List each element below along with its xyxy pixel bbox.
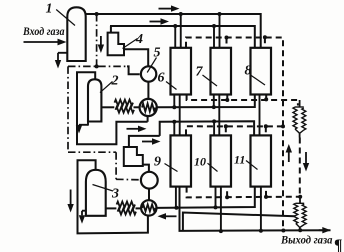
cold box boundary dash-dot horizontal y66.4 [68,65,127,67]
wire lower exchanger to L1 [156,187,255,208]
node line2-ads7 [212,24,216,28]
regen dashed stub ads11 top [265,126,267,135]
wire ads7 top stub a [213,26,215,48]
wire keystone line y122 [160,121,254,136]
wire ads6 top stub a [174,26,176,48]
wire ads9 top stub a [173,122,175,136]
wire to lower heater [299,197,301,204]
wire line1 y14 [85,14,261,48]
wire L2 return line [183,213,295,232]
wire ejector4 to heatex5 [124,49,148,66]
vessel 3 drain [82,210,87,212]
adsorber 6 [171,48,192,95]
node dashed100-ads7 [225,98,229,102]
regen dashed stub ads8 top [264,37,266,48]
ejector 4 [110,26,112,33]
regen dashed line y197 below bottom adsorbers [187,187,301,198]
node L1-ads10 [214,205,218,209]
svg-text:2: 2 [111,74,119,89]
vessel 2 (cold separator) [88,79,101,121]
wire vessel3 top to outlet segment A [78,160,148,233]
wire lower cooler to exchanger [136,207,142,209]
adsorber 10 [211,135,232,186]
wire ads11 to outlet line [260,187,262,231]
node y122-ads9 [172,120,176,124]
wire ads7 top stub b [219,14,221,48]
flow arrow mid 2 [142,141,152,143]
wire ads6 bottom stub to y107 [173,95,175,108]
wire line2 y26 [110,26,255,48]
node line1-ads7 [218,12,222,16]
wire cooler to exchanger [134,106,140,108]
node dashed197 end [298,195,302,199]
svg-text:Вход газа: Вход газа [22,26,65,38]
wire exchanger bottom stub [147,117,149,122]
node dashdot-line1 [95,12,99,16]
inlet arrow [24,41,58,43]
cold box boundary dash-dot vertical x68 [67,66,69,152]
wire vessel2 to cooler [101,106,114,108]
flow arrow on line1 [159,8,172,10]
node outlet-heater [298,228,302,232]
node line1-ads6 [179,12,183,16]
wire ads10 top stub a [213,121,215,135]
cooler zigzag upper row [115,100,134,106]
label 10 leader [208,163,218,171]
regen dashed stub ads7 bottom [226,95,228,101]
node y107-ads6 [172,105,176,109]
svg-text:6: 6 [158,71,165,86]
heat exchanger 9 circle [141,172,158,189]
label 3 leader [93,185,114,192]
label 8 leader [251,75,266,85]
wire exchanger to adsorber line y107 [157,95,255,108]
node line2-ads6 [173,24,177,28]
svg-text:11: 11 [234,153,245,167]
node dashed37-ads7 [225,36,229,40]
regen dashed top line y37.5 [186,38,283,232]
node dashed vertical junction [281,124,285,128]
wire ads10 to outlet line [220,187,222,232]
svg-text:7: 7 [196,65,204,80]
node L1-ads9 [174,206,178,210]
wire ads6-ads9 through stub [179,95,181,136]
wire upper heater bottom stub [299,133,301,137]
regen dashed line y100 below top adsorbers [187,95,298,106]
node dashed197-ads11 [264,195,268,199]
node outlet-ads10 [219,229,223,233]
lower cooler zigzag lower row [118,209,136,215]
vessel 2 drain [79,124,88,126]
node outlet-ads11 [259,229,263,233]
cold box boundary dash-dot horizontal y152.2 [68,151,116,153]
node dashed100-ads8 [264,97,268,101]
adsorber 11 [251,135,272,186]
label 6 leader [166,82,177,90]
regen heater lower zigzag pair [296,202,304,204]
regen dashed vertical x300 [299,138,301,197]
node outlet-dashed283 [281,229,285,233]
regen heater upper zigzag pair [295,106,304,108]
return flow arrow left [166,215,177,217]
svg-text:5: 5 [154,46,161,61]
node dashdot corner [95,64,99,68]
heat exchanger 5 [141,66,156,81]
wire ads9 bottom stub to L1 [175,187,177,208]
ejector (lower) [124,147,143,166]
wire ads8-ads11 through stub [259,95,261,136]
label 7 leader [203,75,218,86]
flow arrow mid 1 [127,128,139,130]
node dashed37-ads8 [263,35,267,39]
label 9 leader [165,164,178,172]
flow arrow on line2 [150,21,161,23]
node y122-ads10 [212,119,216,123]
svg-text:¶: ¶ [335,237,343,252]
vessel 1 drain [58,52,67,54]
wire ejector feed line y136 [129,136,160,147]
svg-text:10: 10 [194,155,206,169]
adsorber 9 [171,135,192,186]
wire ads7-ads10 through stub [218,95,220,136]
wire outlet line segment B [180,187,331,231]
exchanger (circle with zigzag) [140,99,157,116]
vessel 1 (inlet separator) [67,7,85,61]
regen dashed stub ads11 bottom [265,187,267,197]
wire circle9 to lower exchanger [148,189,150,201]
cold box boundary dash-dot vertical x116.1 [115,152,117,179]
regen dashed stub ads7 top [226,38,228,48]
adsorber 8 [251,48,272,95]
lower exchanger (circle with zigzag) [141,200,156,215]
wire ads7 bottom stub to y107 [213,95,215,108]
wire vessel2 bottom left joint [87,121,89,126]
regen dashed line y126.3 above bottom adsorbers [186,126,283,135]
node y107-ads7 [212,105,216,109]
flow arrow down into vessel3 loop [70,190,72,205]
regen dashed stub ads10 top [225,126,227,135]
wire ejector to circle 9 [143,165,149,172]
adsorber 7 [211,48,232,95]
svg-text:8: 8 [245,64,252,79]
label 2 leader [100,82,113,93]
cold box flow arrow down [100,36,102,45]
lower cooler zigzag upper row [117,202,135,208]
label 11 leader [246,161,258,170]
label 1 leader [56,10,75,26]
wire vessel2 top pipe [77,72,148,144]
cooler zigzag lower row [116,107,135,113]
regen dashed stub ads8 bottom [265,95,267,100]
svg-text:1: 1 [46,2,53,17]
wire heatex5 to exchanger below [147,82,149,99]
label 5 leader [147,58,156,73]
cold box boundary dash-dot horizontal into circle 9 [116,178,141,181]
cold box boundary dash-dot vertical x96.6 [96,14,98,66]
regen down arrow [305,152,307,163]
label 4 leader [123,39,138,49]
wire lower heater to outlet line [299,228,301,231]
node dashed126-ads11 [264,124,268,128]
node dashed197-ads10 [225,195,229,199]
outlet arrowhead [319,229,323,231]
svg-text:9: 9 [154,155,161,170]
regen up arrow [288,153,290,163]
regen dashed stub ads10 bottom [226,187,228,198]
svg-text:Выход газа: Выход газа [280,235,333,247]
wire ads6 top stub b [180,14,182,48]
wire ads10 bottom stub to L1 [215,187,217,208]
wire dashdot corner to heatex5 left [127,66,140,74]
node dashed126-ads10 [224,124,228,128]
vessel 3 (bottom separator) [86,170,106,216]
wire vessel3 to lower cooler [106,207,117,209]
